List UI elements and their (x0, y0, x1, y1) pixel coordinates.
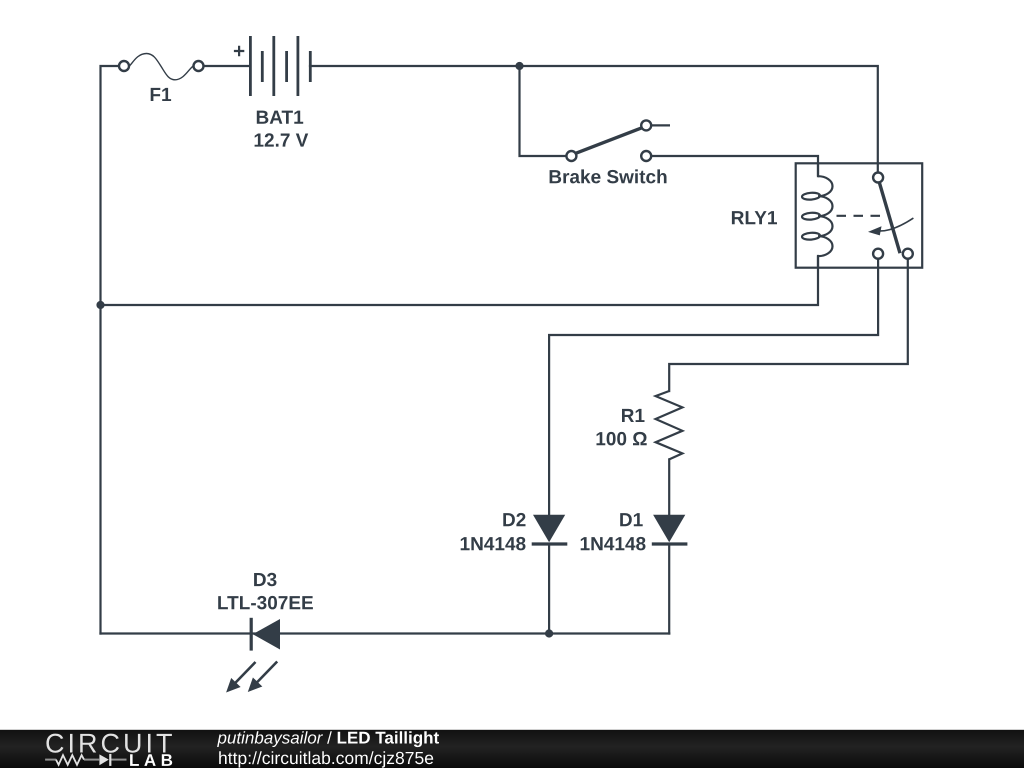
label F1 (151, 88, 171, 101)
junction dot at brake branch (515, 62, 523, 70)
wire brake-switch to relay coil (651, 156, 818, 176)
brake switch SW1 (566, 120, 670, 161)
credit line1 (217, 731, 439, 747)
wire D2 cathode to bottom rail (548, 544, 550, 634)
diode D2 (532, 515, 568, 544)
label 1N4148 (D1) (581, 537, 646, 551)
relay coil (802, 163, 833, 267)
label 1N4148 (D2) (461, 537, 526, 551)
battery BAT1 (250, 36, 310, 96)
label D2 (503, 513, 525, 526)
logo squiggle wire + resistor (45, 754, 126, 766)
junction dot bottom rail (545, 629, 553, 637)
LED arrow 1 (257, 662, 278, 683)
wire left vertical + top-left stub (101, 66, 120, 634)
fuse F1 (119, 54, 204, 80)
relay RLY1 (796, 163, 923, 267)
relay arrow head (868, 226, 882, 235)
wire R1 to D1 (668, 459, 670, 514)
LED arrow 2 (235, 662, 256, 683)
label 12.7 V (255, 133, 309, 146)
wire D1 cathode down to bottom rail corner (668, 544, 670, 634)
relay actuation dashed line (837, 215, 885, 217)
wire relay contact2 down-left to R1 (669, 259, 908, 391)
label D3 (254, 573, 276, 587)
credit line2 url (219, 751, 433, 767)
label 100 ohm (597, 432, 647, 446)
wire battery to relay common (top) (310, 66, 878, 172)
diode D1 (652, 515, 688, 544)
wire relay contact1 down-left to D2 (549, 259, 878, 515)
relay lever (879, 183, 900, 254)
relay arrow curve (880, 218, 914, 231)
wire fuse-to-battery (204, 65, 250, 67)
LED D3 (226, 618, 280, 693)
resistor R1 (656, 391, 683, 459)
label LTL-307EE (218, 596, 313, 610)
label R1 (622, 409, 645, 422)
relay box (796, 163, 923, 267)
relay contact circles (873, 173, 883, 183)
bottom bar (0, 730, 1024, 768)
wire brake-switch branch down from top (520, 66, 567, 156)
logo squiggle diode triangle (99, 754, 108, 765)
junction dot left rail (96, 301, 104, 309)
label RLY1 (732, 211, 777, 224)
wire coil bottom return to left rail (101, 256, 819, 305)
logo CIRCUIT (46, 734, 171, 753)
label D1 (620, 513, 643, 526)
battery plus sign (234, 46, 244, 56)
logo LAB (130, 754, 172, 766)
label Brake Switch (550, 169, 667, 183)
label BAT1 (257, 111, 303, 124)
wire bottom rail (101, 632, 670, 634)
